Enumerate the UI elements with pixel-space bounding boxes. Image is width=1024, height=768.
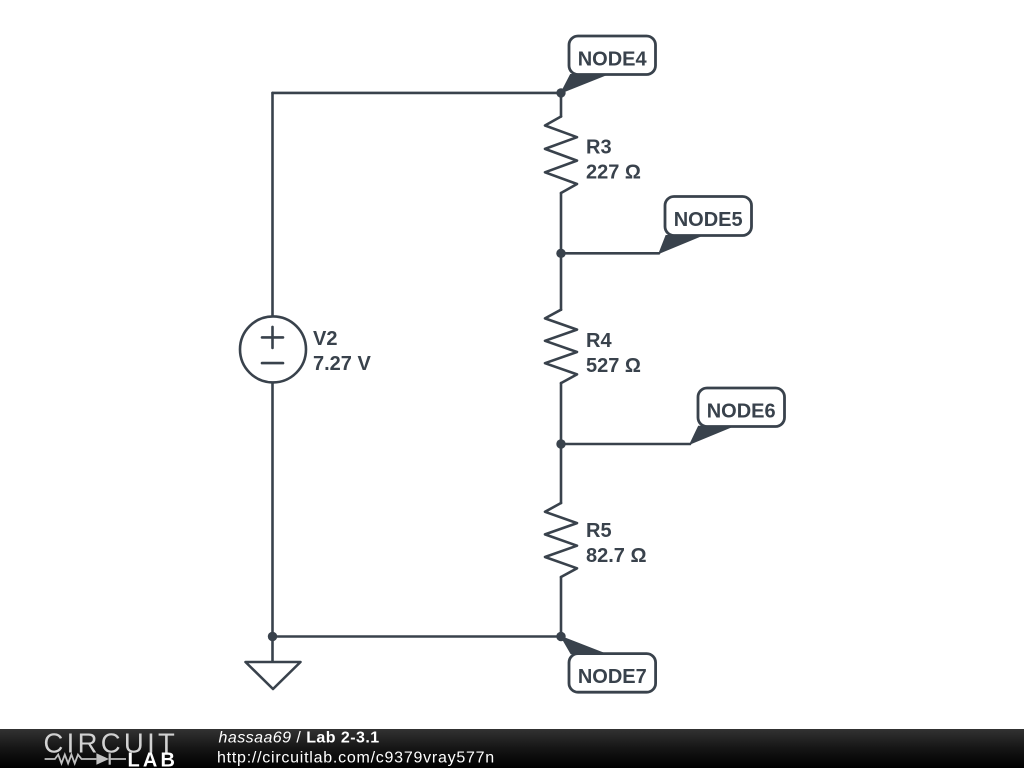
wire bottom horizontal: [273, 635, 562, 638]
svg-text:227 Ω: 227 Ω: [586, 162, 641, 184]
wire ground stub: [271, 637, 274, 663]
junction dot NODE7: [556, 632, 565, 641]
wire NODE6 stub: [561, 443, 690, 446]
logo diode glyph: [96, 753, 109, 764]
logo diode wire: [110, 758, 126, 760]
voltage source V2 minus sign: [262, 362, 283, 365]
svg-text:R4: R4: [586, 330, 612, 352]
svg-text:R3: R3: [586, 137, 612, 159]
logo diode cathode bar: [109, 753, 111, 764]
svg-text:http://circuitlab.com/c9379vra: http://circuitlab.com/c9379vray577n: [217, 750, 495, 767]
voltage source V2 circle: [240, 316, 306, 382]
svg-text:82.7 Ω: 82.7 Ω: [586, 545, 647, 567]
svg-text:NODE7: NODE7: [578, 666, 647, 688]
wire R4 to NODE6: [560, 383, 563, 503]
svg-text:527 Ω: 527 Ω: [586, 355, 641, 377]
wire R5 to NODE7: [560, 577, 563, 637]
node NODE7 flag pointer: [561, 637, 606, 654]
svg-text:NODE4: NODE4: [578, 48, 648, 70]
junction dot NODE6: [556, 439, 565, 448]
wire left vertical lower: [271, 382, 274, 636]
ground: [246, 662, 301, 689]
resistor R5 zigzag: [545, 503, 577, 577]
voltage source V2 plus sign: [262, 327, 283, 348]
node NODE7 flag box: [569, 654, 656, 693]
resistor R3 zigzag: [545, 117, 577, 194]
svg-text:V2: V2: [313, 328, 337, 350]
wire R3 to NODE5: [560, 193, 563, 310]
junction dot NODE5: [556, 249, 565, 258]
node NODE6 flag pointer: [690, 426, 733, 444]
resistor R4 zigzag: [545, 310, 577, 383]
svg-text:7.27 V: 7.27 V: [313, 353, 371, 375]
node NODE5 flag pointer: [659, 236, 702, 254]
svg-text:NODE5: NODE5: [674, 209, 743, 231]
wire top horizontal: [273, 92, 562, 95]
junction dot ground: [268, 632, 277, 641]
node NODE4 flag box: [569, 36, 656, 75]
logo resistor glyph: [45, 755, 97, 764]
svg-text:LAB: LAB: [128, 750, 179, 768]
svg-text:R5: R5: [586, 520, 612, 542]
svg-text:NODE6: NODE6: [707, 400, 776, 422]
wire NODE5 stub: [561, 252, 659, 255]
wire right column segment NODE4 to R3: [560, 93, 563, 117]
junction dot NODE4: [556, 88, 565, 97]
node NODE6 flag box: [698, 388, 785, 427]
node NODE5 flag box: [665, 197, 752, 236]
node NODE4 flag pointer: [561, 75, 607, 93]
svg-text:hassaa69 / Lab 2-3.1: hassaa69 / Lab 2-3.1: [219, 730, 380, 747]
wire left vertical upper: [271, 93, 274, 317]
